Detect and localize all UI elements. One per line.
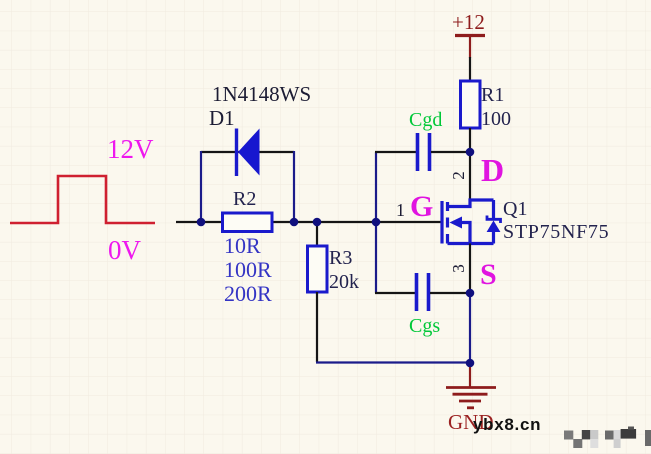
wire: Cgs right horizontal <box>430 292 470 294</box>
wire: R3 top vertical <box>316 222 318 246</box>
wire: +12 to R1 <box>469 57 471 81</box>
channel dashes <box>446 202 449 211</box>
body diode cathode bent bar <box>487 216 501 224</box>
node: input/D1 left <box>197 218 206 227</box>
node: gate branch <box>372 218 381 227</box>
power +12 <box>452 10 485 58</box>
body arrow of Q1 <box>450 217 463 229</box>
wire: main horizontal input to gate <box>176 221 442 223</box>
body diode vertical <box>492 200 495 218</box>
transistor Q1 MOSFET <box>442 200 501 244</box>
input pulse waveform <box>10 176 155 223</box>
svg-text:10R: 10R <box>224 233 261 258</box>
svg-text:Cgd: Cgd <box>409 109 442 131</box>
wire: G-node vertical (Cgd to Cgs) <box>375 152 377 293</box>
capacitor Cgd <box>418 133 430 171</box>
gate bar <box>440 201 443 244</box>
source bottom <box>448 242 494 245</box>
body diode triangle <box>487 221 501 233</box>
node: source/Cgs <box>466 289 475 298</box>
resistor R3 <box>308 246 328 292</box>
svg-text:Q1: Q1 <box>503 198 527 220</box>
resistor R1 <box>461 81 481 128</box>
svg-text:G: G <box>410 190 433 223</box>
capacitor Cgs <box>417 273 429 311</box>
node: R3 top <box>313 218 322 227</box>
pixelated watermark bottom right <box>564 427 651 449</box>
wire: Cgs left horizontal <box>375 292 415 294</box>
svg-text:ybx8.cn: ybx8.cn <box>473 415 541 434</box>
svg-text:D: D <box>481 152 504 188</box>
node: drain/Cgd <box>466 148 475 157</box>
wire: left vertical of D1 loop <box>200 151 202 222</box>
svg-text:Cgs: Cgs <box>409 315 440 337</box>
wire: source node to bottom <box>469 293 471 363</box>
svg-text:100: 100 <box>481 108 511 130</box>
wire: diode top horizontal <box>201 151 294 153</box>
svg-text:3: 3 <box>449 264 468 273</box>
svg-text:+12: +12 <box>452 10 485 34</box>
ground <box>446 363 496 408</box>
svg-text:STP75NF75: STP75NF75 <box>503 221 609 243</box>
body to source link <box>462 223 471 244</box>
svg-text:D1: D1 <box>209 106 235 130</box>
svg-text:1: 1 <box>396 200 405 220</box>
wire: bottom horizontal to ground node <box>316 361 470 363</box>
resistor R2 <box>223 213 273 232</box>
node: ground junction <box>466 359 475 368</box>
wire: R3 bottom vertical <box>316 292 318 362</box>
svg-text:1N4148WS: 1N4148WS <box>212 82 311 106</box>
svg-text:20k: 20k <box>329 271 359 293</box>
svg-text:0V: 0V <box>108 235 142 265</box>
wire: Cgd right horizontal <box>431 151 470 153</box>
svg-text:R1: R1 <box>481 84 504 106</box>
diode D1 <box>237 129 260 177</box>
wire: Cgd left horizontal <box>375 151 416 153</box>
svg-text:R2: R2 <box>233 188 256 210</box>
svg-text:12V: 12V <box>107 134 154 164</box>
wire: right vertical of D1 loop <box>293 151 295 222</box>
svg-text:2: 2 <box>449 171 468 180</box>
svg-text:100R: 100R <box>224 257 272 282</box>
wire: source down <box>469 244 471 294</box>
node: D1 right <box>290 218 299 227</box>
svg-text:200R: 200R <box>224 281 272 306</box>
wire: R1 bottom to drain <box>469 128 471 200</box>
svg-text:S: S <box>480 258 497 291</box>
drain contact <box>448 200 494 207</box>
svg-text:R3: R3 <box>329 247 352 269</box>
